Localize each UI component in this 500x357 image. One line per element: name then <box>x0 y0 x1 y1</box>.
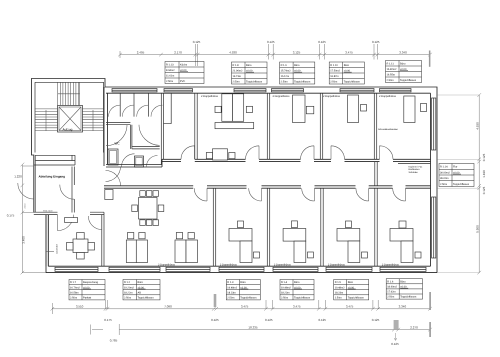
WC cell door arc 1 <box>109 105 121 117</box>
room B1 desks <box>229 221 260 263</box>
svg-text:Teppichfliesen: Teppichfliesen <box>344 80 361 83</box>
svg-text:16.76m2: 16.76m2 <box>70 286 80 289</box>
door arc office T1 <box>246 146 260 160</box>
office T3 desk <box>348 95 367 123</box>
stair top flight steps <box>58 82 80 105</box>
svg-text:2.170: 2.170 <box>174 50 182 54</box>
waiting room table group <box>67 233 95 260</box>
left entrance wall inner face <box>34 155 36 213</box>
svg-text:Teppichfliesen: Teppichfliesen <box>246 80 263 83</box>
svg-text:2.50m: 2.50m <box>440 183 447 186</box>
meeting room table <box>132 191 164 226</box>
svg-text:Parkett: Parkett <box>83 296 91 299</box>
bottom dimension 2 labels <box>110 325 418 345</box>
corridor bottom wall <box>104 185 431 187</box>
svg-text:2.50m: 2.50m <box>330 80 337 83</box>
room B2 desks <box>283 221 313 263</box>
svg-text:Garderobe: Garderobe <box>56 243 59 254</box>
svg-text:39.00m: 39.00m <box>440 177 449 180</box>
svg-text:Büro: Büro <box>240 281 246 284</box>
svg-text:18.23m: 18.23m <box>227 291 236 294</box>
svg-text:3.125: 3.125 <box>293 50 301 54</box>
WC lower door arc 2 <box>147 156 158 167</box>
door arc office T2 <box>301 146 315 160</box>
svg-text:0.785: 0.785 <box>110 339 118 343</box>
room B3 desks <box>337 221 367 263</box>
door arc room B1 <box>249 188 262 201</box>
svg-text:19.48m2: 19.48m2 <box>281 286 291 289</box>
copier corner text <box>398 162 431 164</box>
outer wall right outer face <box>431 87 438 273</box>
svg-text:Teppichfliesen: Teppichfliesen <box>400 79 417 82</box>
svg-text:R 1.4: R 1.4 <box>281 281 288 284</box>
svg-text:7.090: 7.090 <box>164 305 172 309</box>
svg-text:17.50m2: 17.50m2 <box>330 69 340 72</box>
svg-text:2.50m: 2.50m <box>335 296 342 299</box>
svg-text:2.50m: 2.50m <box>281 80 288 83</box>
svg-text:R 1.6: R 1.6 <box>387 280 394 283</box>
svg-text:5.500: 5.500 <box>475 225 479 233</box>
WC cell door arc 2 <box>122 105 134 117</box>
svg-text:R 1.7: R 1.7 <box>70 281 77 284</box>
svg-text:2 Doppelbüros: 2 Doppelbüros <box>328 263 346 266</box>
svg-text:16.87m: 16.87m <box>330 75 339 78</box>
stamp table 5 <box>386 61 422 83</box>
corridor cross wall at T3|T4 <box>375 162 377 186</box>
door arc office T3 <box>331 146 345 160</box>
svg-text:Kopierer / Fax: Kopierer / Fax <box>409 165 424 168</box>
svg-text:0.125: 0.125 <box>482 186 486 194</box>
svg-text:Schrankkombination: Schrankkombination <box>378 128 399 131</box>
svg-text:3.475: 3.475 <box>346 305 354 309</box>
svg-text:AB: AB <box>138 291 142 294</box>
door arc room B2 <box>302 188 315 201</box>
WC cell door leaf 1 <box>119 93 121 116</box>
wall B3|B4 <box>375 188 377 266</box>
svg-text:2 Doppelbüros: 2 Doppelbüros <box>323 95 341 98</box>
office T2 desk <box>293 95 314 123</box>
svg-text:2 Doppelbüros: 2 Doppelbüros <box>379 95 397 98</box>
corridor top wall right segment <box>162 158 431 160</box>
svg-text:Schränke: Schränke <box>409 171 419 174</box>
svg-text:4.930: 4.930 <box>475 122 479 130</box>
svg-text:Büro: Büro <box>400 62 406 65</box>
svg-text:21.96m2: 21.96m2 <box>233 69 243 72</box>
meeting room door arc from corridor <box>194 188 207 201</box>
svg-text:Teppichfliesen: Teppichfliesen <box>138 296 155 299</box>
room B4 desks <box>390 221 421 263</box>
svg-text:Teppichfliesen: Teppichfliesen <box>240 296 257 299</box>
svg-text:Teppichfliesen: Teppichfliesen <box>400 296 417 299</box>
svg-text:R 1.2: R 1.2 <box>124 281 131 284</box>
wall B-left|B1 <box>213 188 215 266</box>
svg-text:Büro: Büro <box>294 64 300 67</box>
svg-text:2.50m: 2.50m <box>166 80 173 83</box>
entrance exterior door arc <box>18 183 34 199</box>
svg-text:3.400: 3.400 <box>22 236 26 244</box>
top dimension line <box>118 44 432 67</box>
svg-text:2.495: 2.495 <box>137 50 145 54</box>
svg-text:2 Doppelbüros: 2 Doppelbüros <box>273 95 291 98</box>
office wall T3|T4 <box>374 93 376 159</box>
bottom wall windows <box>55 267 426 271</box>
stair walking lines <box>46 110 93 131</box>
svg-text:0.125: 0.125 <box>265 318 273 322</box>
cabinet at meeting room top-left <box>105 190 113 200</box>
svg-text:2.50m: 2.50m <box>387 296 394 299</box>
right wall windows <box>432 98 436 258</box>
svg-text:2.50m: 2.50m <box>233 80 240 83</box>
WC cell door arc 4 <box>151 105 163 117</box>
svg-text:Teppichfliesen: Teppichfliesen <box>294 296 311 299</box>
svg-text:19.20m2: 19.20m2 <box>124 286 134 289</box>
stamp table 9 <box>280 280 314 300</box>
svg-text:18.335: 18.335 <box>248 325 258 329</box>
svg-text:3.340: 3.340 <box>399 305 407 309</box>
WC lower door arc 1 <box>122 154 135 167</box>
window glazing lines <box>112 89 411 91</box>
office T4 desk <box>404 96 427 123</box>
svg-text:0.125: 0.125 <box>211 318 219 322</box>
svg-text:18.22m: 18.22m <box>124 291 133 294</box>
svg-text:R 1.10: R 1.10 <box>330 64 338 67</box>
svg-text:11.61m: 11.61m <box>166 74 174 77</box>
svg-text:2 Doppelbüros: 2 Doppelbüros <box>158 263 176 266</box>
svg-text:2 Doppelbüros: 2 Doppelbüros <box>220 263 238 266</box>
stamp table 4 <box>329 62 364 84</box>
svg-text:1.490: 1.490 <box>482 170 486 178</box>
WC mid door arc right <box>139 125 160 146</box>
svg-text:Flur: Flur <box>453 166 458 169</box>
stamp table 12 <box>439 164 474 187</box>
svg-text:3.475: 3.475 <box>345 50 353 54</box>
svg-text:2.010: 2.010 <box>24 203 27 209</box>
stair right flight steps <box>83 109 104 131</box>
svg-text:Teppichfliesen: Teppichfliesen <box>453 183 470 186</box>
outer wall right inner face <box>430 93 432 266</box>
svg-text:0.125: 0.125 <box>318 40 326 44</box>
waiting room sideboard <box>65 218 78 223</box>
svg-text:Besprechung: Besprechung <box>83 281 99 284</box>
svg-text:18.23m: 18.23m <box>335 291 344 294</box>
svg-text:2 Doppelbüros: 2 Doppelbüros <box>274 263 292 266</box>
svg-text:16.55m: 16.55m <box>387 73 396 76</box>
outer wall bottom inner face <box>48 265 430 267</box>
svg-text:Briefkasten: Briefkasten <box>409 168 421 171</box>
stairwell left inner face <box>34 82 36 152</box>
svg-text:19.73m: 19.73m <box>233 75 242 78</box>
svg-text:Büro: Büro <box>348 281 354 284</box>
svg-text:Büro: Büro <box>138 281 144 284</box>
door arc room B4 <box>393 188 406 201</box>
svg-text:1.220: 1.220 <box>14 175 22 179</box>
svg-text:R 1.11: R 1.11 <box>387 62 395 65</box>
svg-text:2 Doppelbüros: 2 Doppelbüros <box>201 95 219 98</box>
WC shower box <box>108 149 118 165</box>
stamp table 11 <box>386 279 422 299</box>
left dimension labels <box>7 175 27 244</box>
WC cell door leaf 3 <box>147 93 149 116</box>
stamp table 3 <box>280 62 315 84</box>
svg-text:16.12m: 16.12m <box>281 75 290 78</box>
WC zone right wall <box>161 93 163 164</box>
svg-text:3.340: 3.340 <box>399 50 407 54</box>
stamp table 8 <box>226 280 260 300</box>
corridor top wall left segment <box>106 159 162 167</box>
right dimension line <box>437 93 481 274</box>
office T1 desk pair <box>215 94 254 129</box>
svg-text:2 Doppelbüros: 2 Doppelbüros <box>382 263 400 266</box>
svg-text:18.60m2: 18.60m2 <box>387 285 397 288</box>
svg-text:R 1.9: R 1.9 <box>281 64 288 67</box>
svg-text:2.50m: 2.50m <box>227 296 234 299</box>
entrance inner door arc <box>60 185 74 200</box>
svg-text:R 1.8: R 1.8 <box>233 64 240 67</box>
small room door arc <box>181 146 195 160</box>
svg-text:R 1.3: R 1.3 <box>227 281 234 284</box>
bottom dimension line 1 <box>51 292 432 314</box>
stamp table 6 <box>69 280 105 300</box>
office wall T1|T2 <box>267 93 269 159</box>
svg-text:Küche: Küche <box>180 63 188 66</box>
door arc room B3 <box>356 188 369 201</box>
svg-text:16.58m: 16.58m <box>70 291 79 294</box>
svg-text:R 1.14: R 1.14 <box>440 166 448 169</box>
WC horizontal partition left <box>106 122 130 124</box>
svg-text:17.92m: 17.92m <box>387 291 396 294</box>
svg-text:Aufzug: Aufzug <box>63 127 73 131</box>
svg-text:19.48m2: 19.48m2 <box>335 286 345 289</box>
svg-text:Büro: Büro <box>344 64 350 67</box>
svg-text:0.175: 0.175 <box>104 318 112 322</box>
WC cell door arc 3 <box>137 105 149 117</box>
WC cell door leaf 2 <box>133 93 135 116</box>
svg-text:0.125: 0.125 <box>482 153 486 161</box>
office T1 small table <box>206 149 235 160</box>
svg-text:3.475: 3.475 <box>293 305 301 309</box>
svg-text:4.930: 4.930 <box>229 50 237 54</box>
svg-text:15.74m2: 15.74m2 <box>281 69 291 72</box>
svg-text:Teppichfliesen: Teppichfliesen <box>348 296 365 299</box>
svg-text:18.23m: 18.23m <box>281 291 290 294</box>
svg-text:8.04m2: 8.04m2 <box>166 69 175 72</box>
WC mid door arc left <box>106 125 127 146</box>
corridor bottom wall inner <box>104 187 431 189</box>
svg-text:3.475: 3.475 <box>241 305 249 309</box>
office wall T2|T3 <box>320 93 322 159</box>
stamp table 2 <box>232 62 268 84</box>
waiting room right wall <box>102 212 104 266</box>
bottom dimension line 2 <box>91 320 432 341</box>
svg-text:Büro: Büro <box>246 64 252 67</box>
top wall windows <box>112 89 411 92</box>
WC centre partition <box>130 125 132 149</box>
meeting room desk pair 1 <box>126 233 147 263</box>
corridor west double door arcs <box>106 167 121 186</box>
top wall inner face <box>106 92 431 94</box>
stairwell bottom wall band <box>34 155 75 165</box>
svg-text:0.125: 0.125 <box>267 40 275 44</box>
wall B2|B3 <box>321 188 323 266</box>
entrance bottom door arc <box>58 215 74 231</box>
outer wall bottom outer face <box>46 215 437 273</box>
right dimension labels <box>475 122 485 233</box>
bottom dimension 1 labels <box>76 305 407 322</box>
svg-text:WC: WC <box>115 142 121 146</box>
svg-text:19.48m2: 19.48m2 <box>227 286 237 289</box>
waiting room to meeting door arc <box>88 216 102 230</box>
svg-text:2.50m: 2.50m <box>281 296 288 299</box>
stamp table 1 <box>165 62 204 84</box>
svg-text:Abteilung Eingang: Abteilung Eingang <box>39 175 66 179</box>
svg-text:0.125: 0.125 <box>318 318 326 322</box>
corridor top wall right segment inner <box>162 161 431 163</box>
stairwell inner box <box>35 82 104 152</box>
waiting room left wall <box>46 215 48 266</box>
left lower wall inner face <box>47 215 49 266</box>
svg-text:R 1.13: R 1.13 <box>166 63 174 66</box>
entrance bottom wall <box>34 212 104 214</box>
svg-text:0.125: 0.125 <box>193 40 201 44</box>
svg-text:30.99m2: 30.99m2 <box>440 171 450 174</box>
svg-text:0.175: 0.175 <box>7 214 15 218</box>
svg-text:16.82m2: 16.82m2 <box>387 68 397 71</box>
WC zone left wall (double) <box>104 87 108 166</box>
svg-text:PVC: PVC <box>180 80 185 83</box>
svg-text:2.50m: 2.50m <box>387 79 394 82</box>
svg-text:Teppichfliesen: Teppichfliesen <box>294 80 311 83</box>
entrance wall right (double) <box>72 167 74 213</box>
WC horizontal partition right <box>132 147 160 149</box>
wall B1|B2 <box>267 188 269 266</box>
left dimension line <box>21 163 46 275</box>
svg-text:3.510: 3.510 <box>76 305 84 309</box>
stair left flight steps <box>35 109 58 131</box>
small room shaft partition <box>164 93 172 124</box>
svg-text:0.125: 0.125 <box>372 40 380 44</box>
svg-text:Büro: Büro <box>400 280 406 283</box>
svg-text:0.125: 0.125 <box>391 342 399 346</box>
outer wall top and stairwell outline <box>32 79 431 213</box>
svg-text:2.50m: 2.50m <box>124 296 131 299</box>
door arc office T4 <box>380 146 394 160</box>
top dimension labels <box>137 40 407 55</box>
svg-text:R 1.5: R 1.5 <box>335 281 342 284</box>
elevator shaft <box>58 106 83 133</box>
small room S right wall <box>195 93 197 159</box>
svg-text:Büro: Büro <box>294 281 300 284</box>
stamp table 10 <box>334 280 369 300</box>
svg-text:2.50m: 2.50m <box>70 296 77 299</box>
stamp table 7 <box>123 280 160 300</box>
svg-text:0.125: 0.125 <box>372 318 380 322</box>
svg-text:2.270: 2.270 <box>410 325 418 329</box>
WC pier box <box>135 156 144 167</box>
meeting room desk pair 2 <box>175 233 198 263</box>
